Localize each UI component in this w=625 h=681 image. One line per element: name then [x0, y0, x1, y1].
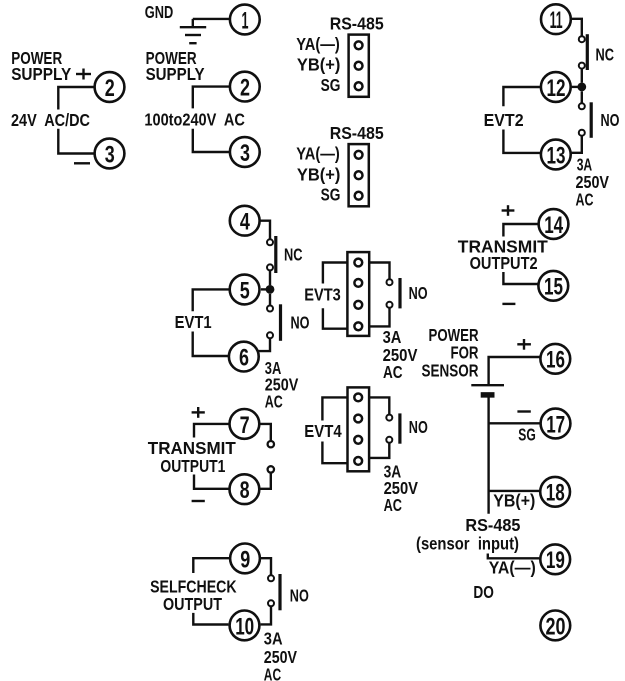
svg-text:NO: NO: [409, 417, 428, 437]
TRANSMIT OUTPUT2 label: [458, 237, 548, 273]
wire EVT1 bracket top: [193, 289, 229, 311]
svg-text:RS-485: RS-485: [330, 123, 384, 143]
wire terminal 8 left: [194, 475, 229, 489]
svg-text:2: 2: [105, 75, 115, 102]
svg-text:AC: AC: [384, 495, 403, 515]
wire terminal 7 right pin: [260, 424, 271, 441]
svg-text:AC: AC: [383, 362, 403, 382]
svg-text:2: 2: [240, 75, 250, 102]
output1 pin upper: [268, 441, 274, 447]
terminal 9: [230, 544, 260, 574]
wire EVT4 NO contact bottom: [369, 443, 389, 458]
terminal 6: [229, 342, 259, 372]
SELFCHECK OUTPUT label: [150, 577, 237, 614]
svg-text:20: 20: [546, 613, 566, 640]
minus sign terminal 3 (24V): [74, 162, 90, 164]
svg-text:12: 12: [547, 75, 566, 102]
EVT4 NO contact: [386, 413, 400, 443]
wire bus to terminal 18: [489, 490, 540, 492]
svg-text:GND: GND: [145, 2, 174, 22]
terminal 3 (24V): [95, 139, 125, 169]
wire NO to terminal 10: [261, 606, 271, 624]
terminal 7: [230, 409, 260, 439]
terminal 17: [541, 409, 571, 439]
RS-485 upper connector: [349, 35, 369, 97]
selfcheck NO contact: [268, 574, 280, 610]
svg-text:YA(—): YA(—): [296, 34, 340, 54]
RS-485 sensor input label: [416, 515, 521, 554]
wire junction to NO contact: [269, 294, 271, 306]
wire selfcheck bracket bottom: [193, 613, 228, 625]
wire EVT1 bracket bottom: [193, 332, 228, 357]
wire terminal 14 left: [503, 224, 537, 237]
wire NO contact to terminal 6: [258, 338, 271, 351]
wire EVT3 to NO contact top: [369, 263, 389, 280]
svg-text:7: 7: [240, 412, 250, 439]
svg-text:AC: AC: [264, 665, 281, 681]
svg-text:EVT4: EVT4: [304, 421, 342, 441]
wire terminal 2 (24V): [58, 87, 93, 110]
svg-text:15: 15: [544, 274, 563, 301]
terminal 19: [540, 544, 570, 574]
svg-text:YB(+): YB(+): [493, 490, 535, 510]
svg-text:SG: SG: [321, 75, 341, 95]
svg-text:16: 16: [546, 347, 565, 374]
svg-text:3: 3: [240, 140, 250, 167]
junction dot EVT2: [577, 83, 586, 92]
EVT3 NO contact: [387, 278, 401, 308]
wire NC to junction EVT2: [581, 69, 583, 83]
wire terminal 15 left: [503, 272, 537, 284]
svg-text:100to240V AC: 100to240V AC: [144, 109, 245, 129]
svg-text:8: 8: [240, 477, 250, 504]
terminal 16: [540, 344, 570, 374]
3A 250V AC label EVT2: [576, 155, 610, 210]
wire terminal 2 (100-240V): [193, 87, 229, 109]
wire terminal 3 (24V): [58, 129, 93, 154]
wire terminal 4 to NC contact: [261, 221, 271, 240]
terminal 10: [230, 611, 260, 641]
power supply 24V label: [11, 48, 71, 84]
svg-text:NO: NO: [601, 110, 620, 130]
svg-text:EVT1: EVT1: [175, 312, 212, 332]
battery for sensor power: [471, 385, 504, 395]
terminal 4: [230, 206, 260, 236]
POWER FOR SENSOR label: [422, 325, 479, 380]
wire EVT3 NO contact bottom: [369, 308, 389, 327]
minus sign terminal 8: [192, 500, 205, 502]
svg-text:4: 4: [240, 209, 250, 236]
wire terminal 9 right: [261, 558, 271, 575]
plus sign terminal 2 (24V): [76, 69, 91, 80]
sensor power bus wire: [487, 397, 489, 514]
EVT4 connector: [348, 387, 370, 471]
svg-text:19: 19: [546, 547, 565, 574]
wire junction to NO contact EVT2: [581, 91, 583, 103]
wire terminal 8 right pin: [260, 473, 271, 489]
terminal 8: [230, 474, 260, 504]
relay EVT2 NO contact: [579, 102, 591, 138]
svg-text:18: 18: [546, 480, 565, 507]
3A 250V AC label selfcheck: [264, 629, 297, 681]
wire terminal 5 to junction: [261, 288, 270, 290]
svg-text:SUPPLY: SUPPLY: [146, 64, 205, 84]
TRANSMIT OUTPUT1 label: [148, 438, 236, 476]
svg-text:1: 1: [242, 7, 249, 34]
svg-text:NC: NC: [596, 45, 615, 65]
svg-text:TRANSMIT: TRANSMIT: [148, 438, 236, 458]
svg-text:6: 6: [239, 345, 249, 372]
wire EVT2 bracket top: [503, 87, 540, 106]
svg-text:AC: AC: [265, 391, 283, 411]
terminal 15: [538, 271, 568, 301]
3A 250V AC label EVT1: [265, 358, 299, 411]
svg-text:NO: NO: [290, 585, 309, 605]
wire EVT3 bracket bottom: [323, 308, 348, 329]
svg-text:3: 3: [105, 141, 115, 168]
terminal 12: [541, 72, 571, 102]
3A 250V AC label EVT3: [383, 327, 418, 382]
junction dot EVT1: [266, 285, 275, 294]
svg-text:YA(—): YA(—): [296, 144, 340, 164]
wire terminal 16 to battery: [489, 357, 540, 385]
wire NC to junction: [269, 271, 271, 286]
svg-text:NC: NC: [284, 244, 303, 264]
svg-text:NO: NO: [409, 283, 428, 303]
ground symbol: [180, 19, 206, 43]
output1 pin lower: [268, 466, 274, 472]
wire EVT2 bracket bottom: [503, 130, 540, 153]
wire EVT4 to NO contact top: [369, 397, 389, 414]
svg-text:YA(—): YA(—): [489, 558, 536, 578]
svg-text:OUTPUT: OUTPUT: [163, 594, 222, 614]
terminal 3 (100-240V): [230, 137, 260, 167]
terminal 18: [540, 477, 570, 507]
svg-text:24V AC/DC: 24V AC/DC: [11, 110, 90, 130]
svg-text:14: 14: [544, 212, 563, 239]
power supply 100-240V label: [146, 48, 205, 84]
svg-text:11: 11: [550, 7, 563, 34]
svg-text:10: 10: [235, 613, 254, 640]
wire bus to terminal 19: [488, 554, 540, 559]
minus sign terminal 15: [502, 303, 515, 305]
svg-text:RS-485: RS-485: [465, 515, 520, 535]
terminal 11: [541, 4, 571, 34]
svg-text:SG: SG: [518, 425, 536, 445]
svg-text:YB(+): YB(+): [297, 55, 341, 75]
terminal 2 (24V): [95, 72, 125, 102]
wire EVT4 bracket top: [322, 397, 347, 420]
terminal 2 (100-240V): [230, 72, 260, 102]
terminal 14: [539, 209, 569, 239]
svg-text:13: 13: [547, 142, 566, 169]
svg-text:(sensor input): (sensor input): [416, 534, 519, 554]
svg-text:SG: SG: [321, 185, 341, 205]
wire selfcheck bracket top: [193, 558, 229, 573]
minus sign terminal 17: [517, 410, 530, 412]
svg-text:3A: 3A: [264, 629, 283, 649]
wire terminal 3 (100-240V): [193, 129, 229, 152]
svg-text:3A: 3A: [383, 327, 402, 347]
wire terminal 11 to NC contact: [572, 19, 582, 36]
terminal 5: [230, 275, 260, 305]
svg-text:OUTPUT2: OUTPUT2: [470, 253, 538, 273]
svg-text:SUPPLY: SUPPLY: [11, 64, 71, 84]
svg-text:AC: AC: [576, 189, 594, 209]
terminal 1: [230, 5, 260, 35]
relay EVT2 NC contact: [579, 34, 588, 70]
svg-text:EVT2: EVT2: [484, 110, 524, 130]
svg-text:OUTPUT1: OUTPUT1: [160, 456, 225, 476]
relay EVT1 NC contact: [267, 236, 276, 273]
wire terminal 7 left: [194, 424, 229, 438]
svg-text:YB(+): YB(+): [297, 164, 341, 184]
wire ground to terminal 1: [193, 18, 229, 20]
svg-text:RS-485: RS-485: [330, 13, 384, 33]
wire NO contact to terminal 13: [571, 136, 582, 153]
terminal 13: [541, 140, 571, 170]
svg-text:17: 17: [546, 411, 565, 438]
terminal 20: [540, 611, 570, 641]
wire EVT4 bracket bottom: [322, 442, 347, 464]
svg-text:9: 9: [240, 546, 250, 573]
relay EVT1 NO contact: [267, 304, 281, 341]
wire terminal 12 to junction: [572, 86, 582, 88]
EVT3 connector: [347, 252, 369, 336]
wire bus to terminal 17: [489, 422, 540, 424]
svg-text:DO: DO: [473, 582, 494, 602]
plus sign terminal 16: [517, 339, 531, 350]
svg-text:SENSOR: SENSOR: [422, 360, 479, 380]
svg-text:EVT3: EVT3: [304, 285, 341, 305]
3A 250V AC label EVT4: [384, 461, 419, 515]
RS-485 lower connector: [349, 144, 369, 206]
plus sign terminal 14: [502, 205, 515, 216]
svg-text:NO: NO: [291, 312, 310, 332]
wire EVT3 bracket top: [323, 263, 348, 284]
svg-text:5: 5: [240, 277, 250, 304]
plus sign terminal 7: [192, 407, 205, 418]
